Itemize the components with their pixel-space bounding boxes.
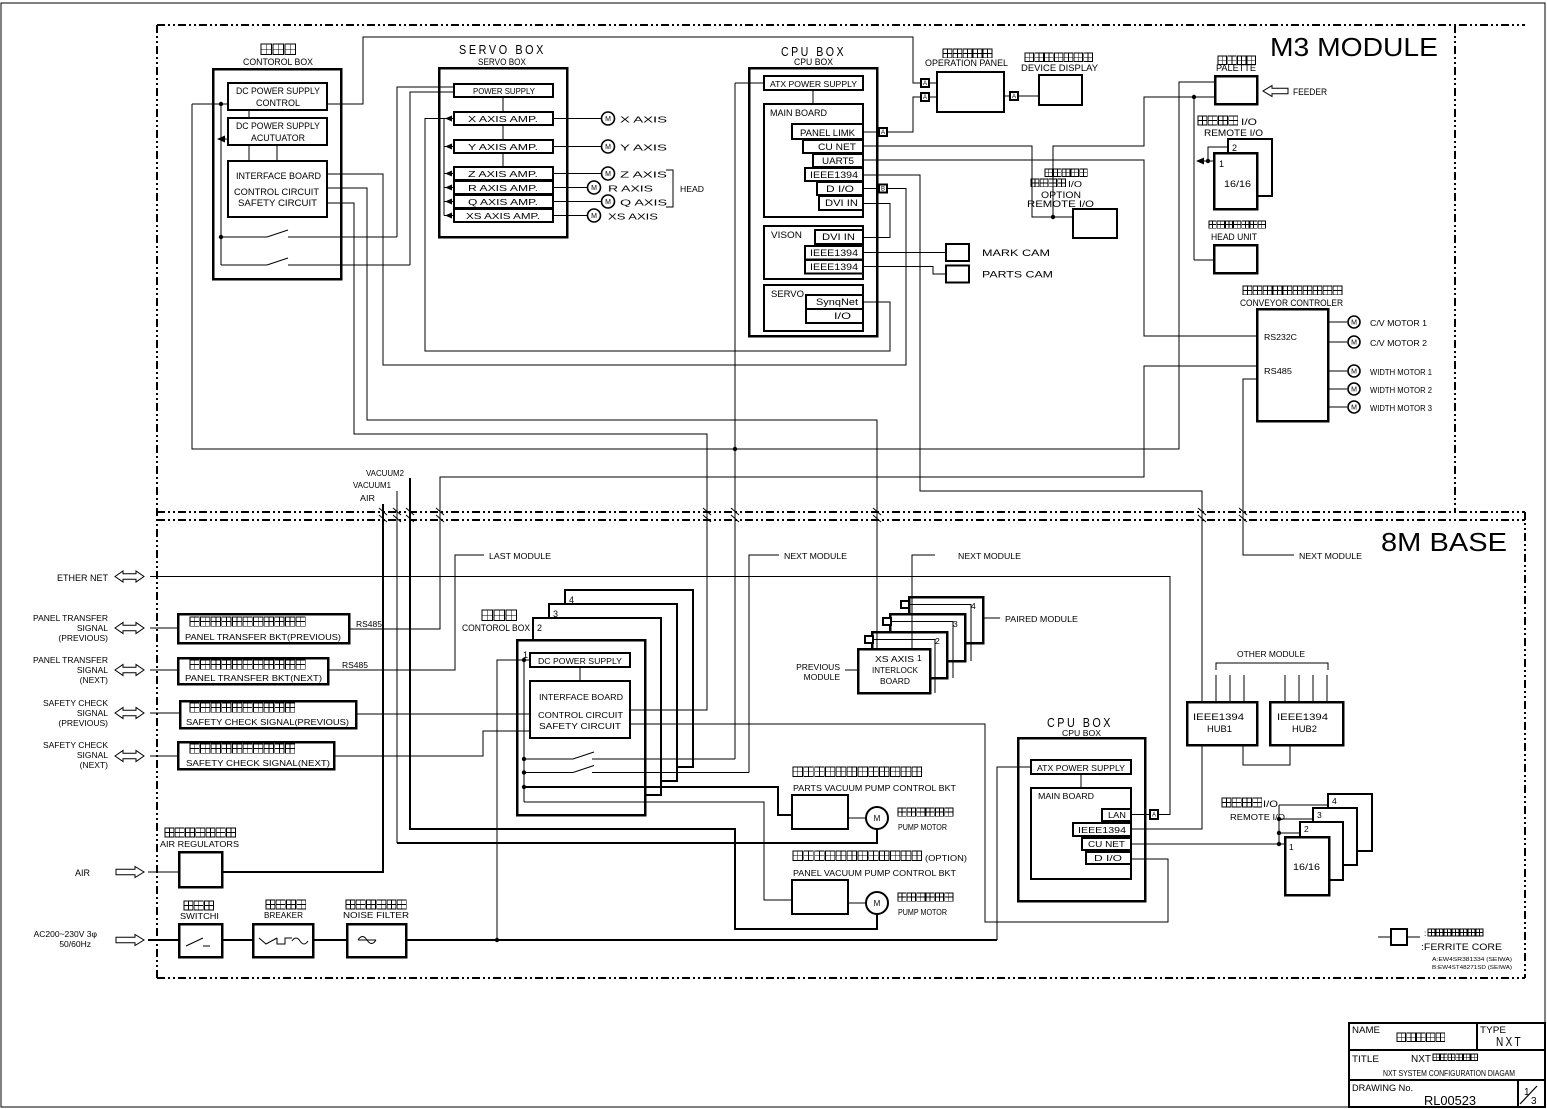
svg-text:ATX POWER SUPPLY: ATX POWER SUPPLY bbox=[1037, 763, 1125, 773]
box XS AXIS AMP bbox=[454, 209, 553, 222]
svg-text:RS485: RS485 bbox=[1264, 366, 1292, 376]
junction dot palette branch bbox=[1192, 95, 1196, 99]
svg-text:4: 4 bbox=[1332, 796, 1337, 806]
wire switch2 to NEXT MODULE (left) bbox=[749, 555, 779, 773]
svg-text:1: 1 bbox=[1219, 159, 1224, 169]
label REMOTE I/O (JP, top) bbox=[1198, 116, 1238, 125]
svg-text:X AXIS: X AXIS bbox=[620, 115, 668, 125]
svg-text:HUB2: HUB2 bbox=[1292, 724, 1317, 734]
svg-text:50/60Hz: 50/60Hz bbox=[59, 939, 91, 949]
svg-text:REMOTE I/O: REMOTE I/O bbox=[1230, 812, 1285, 822]
label CONTROL BOX (JP) bbox=[261, 44, 295, 55]
box IEEE1394 (vison1) bbox=[805, 246, 863, 260]
svg-text:SAFETY CHECK: SAFETY CHECK bbox=[43, 740, 108, 750]
svg-text:ETHER NET: ETHER NET bbox=[57, 573, 109, 583]
svg-text:A: A bbox=[1152, 813, 1156, 819]
arrow ETHER NET bbox=[115, 571, 144, 582]
svg-text:2: 2 bbox=[537, 623, 542, 633]
ferrite core interlock 4 bbox=[901, 601, 909, 608]
svg-text:(NEXT): (NEXT) bbox=[80, 760, 109, 770]
box Y AXIS AMP bbox=[454, 140, 553, 153]
box ATX POWER SUPPLY bbox=[764, 76, 863, 90]
pipe AIR bbox=[222, 504, 383, 872]
box control box 2 bbox=[533, 618, 661, 795]
svg-text:1: 1 bbox=[1289, 842, 1294, 852]
box CU NET bbox=[803, 140, 863, 153]
svg-text:VACUUM2: VACUUM2 bbox=[366, 469, 405, 478]
svg-text:4: 4 bbox=[971, 601, 976, 611]
svg-text:DC POWER SUPPLY: DC POWER SUPPLY bbox=[236, 86, 320, 96]
label CONVEYOR CONTROLER (JP) bbox=[1243, 286, 1342, 295]
svg-text:M: M bbox=[1351, 320, 1357, 327]
motor WIDTH MOTOR 1 bbox=[1348, 365, 1360, 377]
ferrite core LAN bbox=[1150, 810, 1158, 819]
svg-text:NOISE FILTER: NOISE FILTER bbox=[343, 910, 409, 920]
svg-text:M: M bbox=[1351, 369, 1357, 376]
svg-text:NEXT MODULE: NEXT MODULE bbox=[784, 551, 847, 561]
svg-text:CONTOROL BOX: CONTOROL BOX bbox=[462, 623, 530, 633]
svg-text:UART5: UART5 bbox=[822, 156, 854, 166]
wire power net (M3 DC / ATX / palette) bbox=[192, 82, 1215, 449]
svg-text:AC200~230V 3φ: AC200~230V 3φ bbox=[34, 929, 98, 939]
wire DC control to operation panel bbox=[327, 37, 921, 104]
motor PUMP MOTOR 2 bbox=[866, 892, 888, 914]
motor C/V MOTOR 1 bbox=[1348, 316, 1360, 328]
wire ATX to main board bbox=[812, 90, 814, 104]
svg-text:IEEE1394: IEEE1394 bbox=[810, 262, 858, 272]
svg-text:PANEL TRANSFER: PANEL TRANSFER bbox=[33, 655, 108, 665]
box interlock 2 bbox=[872, 632, 947, 678]
arrow safety check prev bbox=[115, 708, 144, 719]
border pass-through marks bbox=[379, 508, 387, 522]
svg-text:REMOTE I/O: REMOTE I/O bbox=[1027, 199, 1094, 209]
wire mark cam bbox=[864, 252, 946, 254]
svg-text:OTHER MODULE: OTHER MODULE bbox=[1237, 649, 1305, 659]
wire Z axis motor bbox=[553, 173, 601, 175]
wire conveyor RS485 to next module bbox=[1243, 379, 1294, 555]
svg-text:PANEL TRANSFER BKT(NEXT): PANEL TRANSFER BKT(NEXT) bbox=[185, 673, 322, 683]
svg-text:PALETTE: PALETTE bbox=[1216, 63, 1256, 73]
svg-text:A: A bbox=[1012, 94, 1016, 100]
wire width motor3 bbox=[1328, 406, 1347, 408]
ferrite core A (op panel upper) bbox=[921, 79, 929, 87]
svg-text:SERVO: SERVO bbox=[771, 289, 804, 299]
svg-text:Y AXIS: Y AXIS bbox=[620, 143, 668, 153]
box SERVO BOX outline bbox=[439, 68, 567, 237]
box AIR REGULATORS bbox=[179, 852, 222, 887]
svg-text:(PREVIOUS): (PREVIOUS) bbox=[58, 718, 108, 728]
svg-text:Q AXIS: Q AXIS bbox=[620, 198, 668, 208]
wire interlock chain 3 bbox=[891, 622, 953, 679]
svg-text:SERVO BOX: SERVO BOX bbox=[459, 43, 546, 57]
svg-text:3: 3 bbox=[553, 609, 558, 619]
box interlock 3 bbox=[890, 614, 965, 661]
svg-text::: : bbox=[1424, 929, 1426, 938]
svg-text:WIDTH MOTOR 1: WIDTH MOTOR 1 bbox=[1370, 368, 1433, 377]
box CPU BOX outline bbox=[749, 68, 877, 336]
svg-text:FEEDER: FEEDER bbox=[1293, 87, 1327, 97]
switch contact 1 (M3) bbox=[221, 236, 267, 238]
title block bbox=[1349, 1023, 1545, 1107]
junction dot bbox=[219, 102, 223, 106]
box IEEE1394 HUB2 bbox=[1270, 702, 1343, 745]
svg-text:CONTROL CIRCUIT: CONTROL CIRCUIT bbox=[234, 187, 320, 197]
svg-text:2: 2 bbox=[935, 636, 940, 646]
svg-text:INTERLOCK: INTERLOCK bbox=[872, 665, 918, 675]
box INTERFACE BOARD / CONTROL CIRCUIT / SAFETY CIRCUIT bbox=[228, 161, 327, 217]
svg-text:M3 MODULE: M3 MODULE bbox=[1270, 32, 1438, 62]
motor X AXIS bbox=[602, 112, 615, 125]
wire AC to 8M ATX power bbox=[997, 767, 1031, 940]
box DC POWER SUPPLY (8M) bbox=[530, 653, 630, 667]
svg-text:XS AXIS: XS AXIS bbox=[608, 212, 658, 222]
svg-text:3: 3 bbox=[953, 619, 958, 629]
motor Q AXIS bbox=[602, 195, 615, 208]
svg-text:I/O: I/O bbox=[1241, 117, 1257, 127]
svg-text:M: M bbox=[605, 171, 611, 178]
wire PANEL LIMK to operation panel bbox=[863, 131, 879, 133]
svg-text:I/O: I/O bbox=[1068, 180, 1082, 189]
wire UART5 to conveyor RS232C bbox=[863, 160, 1257, 336]
box remote 2 (bottom) bbox=[1300, 822, 1343, 880]
svg-text:B: B bbox=[881, 187, 885, 193]
svg-text:MODULE: MODULE bbox=[804, 672, 841, 682]
box interlock 1 XS AXIS INTERLOCK BOARD bbox=[858, 649, 930, 693]
box PARTS CAM bbox=[946, 266, 969, 283]
wire safety prev to interface bbox=[356, 713, 530, 715]
wire previous module stub bbox=[845, 669, 858, 671]
svg-text:AIR REGULATORS: AIR REGULATORS bbox=[160, 839, 239, 849]
box remote 4 (bottom) bbox=[1328, 794, 1372, 851]
svg-text:WIDTH MOTOR 2: WIDTH MOTOR 2 bbox=[1370, 386, 1433, 395]
pipe VACUUM1 bbox=[396, 491, 398, 843]
switch contact 2 (8M) bbox=[524, 772, 573, 774]
junction dot switch1 (8M) bbox=[522, 757, 526, 761]
svg-text:XS AXIS AMP.: XS AXIS AMP. bbox=[466, 211, 540, 221]
svg-text:DRAWING No.: DRAWING No. bbox=[1352, 1083, 1413, 1093]
box MAIN BOARD bbox=[764, 104, 863, 217]
wire paired module stub bbox=[983, 617, 1000, 619]
svg-text:PANEL LIMK: PANEL LIMK bbox=[800, 128, 855, 138]
svg-text:R AXIS AMP.: R AXIS AMP. bbox=[468, 183, 538, 193]
motor Y AXIS bbox=[602, 140, 615, 153]
svg-text:CONVEYOR CONTROLER: CONVEYOR CONTROLER bbox=[1240, 298, 1343, 308]
svg-text:SWITCHI: SWITCHI bbox=[180, 911, 219, 921]
svg-text:PUMP MOTOR: PUMP MOTOR bbox=[898, 823, 947, 832]
svg-text:SIGNAL: SIGNAL bbox=[77, 708, 108, 718]
label OPTION REMOTE I/O (JP) bbox=[1045, 169, 1087, 177]
arrow FEEDER bbox=[1263, 86, 1288, 97]
box SAFETY CHECK SIGNAL(NEXT) bbox=[178, 742, 334, 769]
box PARTS VACUUM PUMP CONTROL BKT bbox=[792, 795, 848, 829]
svg-text:M: M bbox=[591, 213, 597, 220]
svg-text:D I/O: D I/O bbox=[826, 184, 854, 194]
junction dot pump feed bbox=[522, 785, 526, 789]
box DVI IN (vison) bbox=[815, 230, 863, 244]
svg-text:SAFETY CHECK SIGNAL(NEXT): SAFETY CHECK SIGNAL(NEXT) bbox=[186, 758, 330, 768]
box REMOTE I/O 1 (top) bbox=[1214, 153, 1257, 209]
svg-text:OPERATION PANEL: OPERATION PANEL bbox=[925, 58, 1008, 68]
wire ATX to main board 8M bbox=[1080, 774, 1082, 788]
svg-text:8M BASE: 8M BASE bbox=[1381, 527, 1507, 557]
switch contact 2 (M3) bbox=[221, 264, 267, 266]
wire switch2 to servo power supply bbox=[410, 92, 454, 265]
box R AXIS AMP bbox=[454, 181, 553, 194]
wire conveyor RS485 to previous module bbox=[349, 366, 1257, 629]
box DVI IN (main) bbox=[819, 196, 863, 210]
svg-text:REMOTE I/O: REMOTE I/O bbox=[1204, 128, 1263, 138]
wire C/V motor2 bbox=[1328, 341, 1347, 343]
svg-text:HUB1: HUB1 bbox=[1207, 724, 1232, 734]
box IEEE1394 HUB1 bbox=[1187, 702, 1257, 745]
svg-text:16/16: 16/16 bbox=[1293, 862, 1320, 872]
box D I/O 8M bbox=[1086, 852, 1131, 864]
box ATX POWER SUPPLY 8M bbox=[1031, 760, 1131, 774]
label OPERATION PANEL (JP) bbox=[943, 49, 992, 58]
label NOISE FILTER (JP) bbox=[346, 900, 406, 909]
box PANEL LIMK bbox=[792, 124, 863, 139]
svg-text:BOARD: BOARD bbox=[880, 676, 910, 686]
svg-text:WIDTH MOTOR 3: WIDTH MOTOR 3 bbox=[1370, 404, 1433, 413]
wire safety next to interface bbox=[334, 731, 530, 756]
svg-text::FERRITE CORE: :FERRITE CORE bbox=[1421, 942, 1502, 952]
svg-text:SIGNAL: SIGNAL bbox=[77, 623, 108, 633]
label REMOTE I/O bottom (JP) bbox=[1222, 798, 1262, 807]
svg-text:M: M bbox=[605, 116, 611, 123]
box DC POWER SUPPLY ACUTUATOR bbox=[228, 118, 327, 145]
arrow safety check next bbox=[115, 751, 144, 762]
svg-text:INTERFACE BOARD: INTERFACE BOARD bbox=[236, 171, 321, 181]
svg-text:CPU BOX: CPU BOX bbox=[1062, 728, 1101, 738]
title block sheet 1/3 bbox=[1520, 1086, 1537, 1104]
svg-text:(NEXT): (NEXT) bbox=[80, 675, 109, 685]
svg-text:RS485: RS485 bbox=[356, 620, 383, 629]
svg-text:SAFETY CIRCUIT: SAFETY CIRCUIT bbox=[539, 721, 621, 731]
junction dot power net bbox=[733, 447, 737, 451]
wire control box internal safety bus bbox=[220, 104, 222, 265]
wire interlock chain 4 bbox=[909, 605, 971, 662]
svg-text:PANEL TRANSFER BKT(PREVIOUS): PANEL TRANSFER BKT(PREVIOUS) bbox=[185, 632, 341, 642]
svg-text:HEAD: HEAD bbox=[680, 184, 704, 194]
box IEEE1394 8M bbox=[1073, 823, 1131, 836]
box I/O (cpu servo) bbox=[806, 309, 863, 323]
ferrite core interlock 2 bbox=[865, 636, 873, 643]
wire IEEE1394 to HUB1 bottom bbox=[1131, 745, 1202, 829]
box CU NET 8M bbox=[1082, 838, 1131, 850]
junction dot AC branch bbox=[495, 938, 499, 942]
box Q AXIS AMP bbox=[454, 195, 553, 208]
box CPU BOX 8M outline bbox=[1018, 738, 1145, 901]
label PANEL VACUUM PUMP CONTROL BKT (JP) bbox=[793, 851, 922, 861]
wire parts cam bbox=[864, 267, 946, 275]
svg-text:IEEE1394: IEEE1394 bbox=[1078, 825, 1126, 835]
box D I/O bbox=[817, 182, 863, 195]
junction dot option bbox=[1051, 215, 1055, 219]
box SERVO (cpu) bbox=[764, 285, 863, 331]
svg-text:CPU BOX: CPU BOX bbox=[794, 57, 833, 67]
box LAN bbox=[1102, 809, 1131, 821]
svg-text:1: 1 bbox=[917, 653, 922, 663]
wire CU NET riser to palette bbox=[1053, 97, 1215, 217]
svg-text:M: M bbox=[1351, 340, 1357, 347]
wire HUB1 to HUB2 bbox=[1243, 745, 1290, 765]
bracket HEAD bbox=[666, 170, 673, 207]
wire remote bottom chain bbox=[1278, 805, 1280, 844]
svg-text:A:EW4SR381334 (SEIWA): A:EW4SR381334 (SEIWA) bbox=[1432, 957, 1512, 963]
svg-text:MAIN BOARD: MAIN BOARD bbox=[770, 108, 827, 118]
wire AC line bbox=[148, 939, 179, 941]
wire operation panel to device display bbox=[1004, 95, 1010, 97]
box PANEL TRANSFER BKT(NEXT) bbox=[178, 658, 328, 684]
svg-text:2: 2 bbox=[1304, 824, 1309, 834]
svg-text:NEXT MODULE: NEXT MODULE bbox=[958, 551, 1021, 561]
svg-text:CONTROL CIRCUIT: CONTROL CIRCUIT bbox=[538, 710, 623, 720]
svg-text:C/V MOTOR 1: C/V MOTOR 1 bbox=[1370, 319, 1428, 328]
wire internal safety bus (8M) bbox=[523, 660, 525, 802]
svg-text:CU NET: CU NET bbox=[1088, 839, 1125, 849]
svg-text:SAFETY CHECK: SAFETY CHECK bbox=[43, 698, 108, 708]
wire head unit feed bbox=[1194, 259, 1214, 261]
motor PUMP MOTOR 1 bbox=[866, 807, 888, 829]
box HEAD UNIT bbox=[1214, 245, 1257, 273]
label PARTS VACUUM PUMP CONTROL BKT (JP) bbox=[793, 767, 922, 777]
wire interface D I/O loop bbox=[630, 724, 1168, 922]
motor WIDTH MOTOR 2 bbox=[1348, 383, 1360, 395]
box control box 1 bbox=[517, 640, 645, 815]
svg-text:Z AXIS: Z AXIS bbox=[620, 170, 668, 180]
wire interface to 8M interface bbox=[327, 203, 707, 710]
M3 MODULE / 8M BASE dashed region borders bbox=[157, 24, 1525, 26]
svg-text:CONTOROL BOX: CONTOROL BOX bbox=[243, 57, 313, 67]
svg-text:M: M bbox=[1351, 405, 1357, 412]
svg-text:HEAD UNIT: HEAD UNIT bbox=[1211, 232, 1257, 242]
svg-text:PANEL VACUUM PUMP CONTROL BKT: PANEL VACUUM PUMP CONTROL BKT bbox=[793, 868, 956, 878]
label PUMP MOTOR 2 (JP) bbox=[898, 893, 953, 901]
ferrite core interlock 3 bbox=[883, 618, 891, 625]
wire IEEE1394 to 8M HUB1 bbox=[863, 175, 1202, 702]
box PANEL VACUUM PUMP CONTROL BKT bbox=[792, 880, 848, 914]
svg-text:3: 3 bbox=[1317, 810, 1322, 820]
wire CU NET to remote I/O bottom bbox=[1131, 843, 1285, 845]
svg-text:C/V MOTOR 2: C/V MOTOR 2 bbox=[1370, 339, 1428, 348]
svg-text:CONTROL: CONTROL bbox=[256, 98, 300, 108]
svg-text:A: A bbox=[923, 95, 927, 101]
svg-text:SAFETY CHECK SIGNAL(PREVIOUS): SAFETY CHECK SIGNAL(PREVIOUS) bbox=[186, 717, 349, 727]
ferrite core A (panel limk) bbox=[879, 128, 887, 136]
box CONVEYOR CONTROLER bbox=[1257, 309, 1328, 421]
box SAFETY CHECK SIGNAL(PREVIOUS) bbox=[180, 701, 356, 728]
arrow remote I/O 1 bbox=[1196, 158, 1204, 165]
svg-text:SIGNAL: SIGNAL bbox=[77, 665, 108, 675]
svg-text:CU NET: CU NET bbox=[818, 142, 857, 152]
svg-text:NXT: NXT bbox=[1496, 1034, 1523, 1049]
svg-text:INTERFACE BOARD: INTERFACE BOARD bbox=[539, 692, 623, 702]
svg-text:M: M bbox=[605, 199, 611, 206]
pipe VACUUM2 bbox=[410, 478, 877, 929]
wire C/V motor1 bbox=[1328, 321, 1347, 323]
box MARK CAM bbox=[946, 244, 969, 261]
arrow AIR bbox=[116, 867, 144, 878]
wire pump1 feed bbox=[524, 787, 792, 815]
box REMOTE I/O 2 (top) bbox=[1228, 139, 1272, 196]
svg-text:3: 3 bbox=[1531, 1096, 1537, 1107]
svg-text:D I/O: D I/O bbox=[1094, 853, 1123, 863]
box MAIN BOARD 8M bbox=[1031, 788, 1131, 879]
svg-text:SynqNet: SynqNet bbox=[816, 297, 859, 307]
svg-text:B:EW4ST48271SD (SEIWA): B:EW4ST48271SD (SEIWA) bbox=[1432, 965, 1512, 971]
junction dot switch1 bbox=[219, 235, 223, 239]
svg-text:Y AXIS AMP.: Y AXIS AMP. bbox=[468, 142, 538, 152]
motor WIDTH MOTOR 3 bbox=[1348, 401, 1360, 413]
wire ATX power supply feed bbox=[735, 82, 764, 84]
svg-text:LAN: LAN bbox=[1108, 810, 1126, 820]
svg-text:R AXIS: R AXIS bbox=[608, 184, 654, 194]
svg-text:A: A bbox=[881, 130, 885, 136]
box VISON bbox=[764, 226, 863, 279]
label AIR REGULATORS (JP) bbox=[165, 828, 236, 837]
junction dot switch2 (8M) bbox=[522, 770, 526, 774]
svg-text:PANEL TRANSFER: PANEL TRANSFER bbox=[33, 613, 108, 623]
svg-text:LAST MODULE: LAST MODULE bbox=[489, 551, 551, 561]
wire interlock chain 2 bbox=[873, 640, 935, 694]
svg-text:4: 4 bbox=[569, 595, 574, 605]
wire pump2 feed bbox=[524, 802, 792, 900]
svg-text:M: M bbox=[1351, 387, 1357, 394]
box DEVICE DISPLAY bbox=[1039, 75, 1082, 105]
wire Y amp to Z amp bbox=[502, 153, 504, 167]
svg-text:RS485: RS485 bbox=[342, 661, 369, 670]
svg-text:2: 2 bbox=[1232, 143, 1237, 153]
svg-text:DEVICE DISPLAY: DEVICE DISPLAY bbox=[1021, 63, 1098, 73]
box control box 3 bbox=[549, 604, 677, 781]
wire pump2 to motor bbox=[848, 902, 866, 904]
svg-text:NEXT MODULE: NEXT MODULE bbox=[1299, 551, 1362, 561]
wire XS axis motor bbox=[553, 215, 587, 217]
box POWER SUPPLY bbox=[454, 84, 553, 97]
svg-text:(OPTION): (OPTION) bbox=[925, 853, 967, 863]
ferrite core legend bbox=[1378, 936, 1391, 938]
svg-text:XS AXIS: XS AXIS bbox=[875, 654, 914, 664]
svg-text:PAIRED MODULE: PAIRED MODULE bbox=[1005, 614, 1078, 624]
svg-text:X AXIS AMP.: X AXIS AMP. bbox=[468, 114, 538, 124]
bracket OTHER MODULE bbox=[1216, 663, 1328, 670]
wires hub2 to bracket bbox=[1284, 675, 1286, 702]
box NOISE FILTER bbox=[347, 924, 406, 957]
box PANEL TRANSFER BKT(PREVIOUS) bbox=[178, 614, 349, 643]
wire servo amp daisy chain bbox=[443, 119, 445, 216]
wire pump1 to motor bbox=[848, 817, 866, 819]
switch contact 1 (8M) bbox=[524, 758, 573, 760]
svg-text:PARTS VACUUM PUMP CONTROL BKT: PARTS VACUUM PUMP CONTROL BKT bbox=[793, 783, 956, 793]
label HEAD UNIT (JP) bbox=[1209, 221, 1265, 228]
label SWITCHI (JP) bbox=[184, 901, 214, 910]
box PALETTE bbox=[1215, 76, 1257, 104]
svg-text:M: M bbox=[874, 899, 881, 908]
box IEEE1394 (main) bbox=[805, 168, 863, 181]
svg-text:NXT: NXT bbox=[1411, 1054, 1431, 1065]
wire control box DC feed (left) bbox=[192, 103, 228, 105]
ferrite core A (op panel lower) bbox=[921, 93, 929, 101]
svg-text:IEEE1394: IEEE1394 bbox=[810, 248, 858, 258]
box BREAKER bbox=[253, 924, 313, 957]
svg-text:M: M bbox=[874, 814, 881, 823]
motor XS AXIS bbox=[588, 209, 601, 222]
box Z AXIS AMP bbox=[454, 167, 553, 180]
wire remote I/O 2 stub bbox=[1208, 147, 1228, 161]
arrow AC input bbox=[116, 935, 144, 946]
box SWITCHI bbox=[179, 924, 222, 957]
wire actuator to interface (2 links) bbox=[248, 145, 250, 161]
